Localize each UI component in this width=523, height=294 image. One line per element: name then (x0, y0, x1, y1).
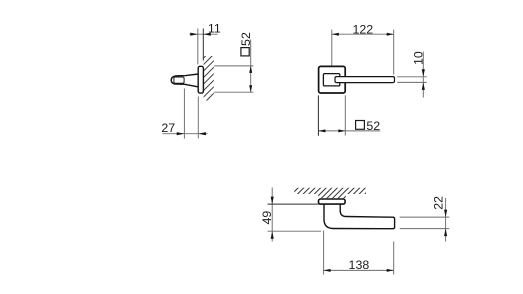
svg-text:49: 49 (260, 211, 274, 225)
svg-text:22: 22 (432, 196, 446, 210)
svg-text:27: 27 (161, 121, 175, 135)
svg-text:52: 52 (239, 32, 253, 46)
svg-text:122: 122 (352, 22, 373, 36)
svg-text:52: 52 (366, 119, 380, 133)
svg-text:11: 11 (208, 21, 221, 35)
svg-text:138: 138 (349, 258, 370, 272)
svg-text:10: 10 (412, 51, 426, 65)
